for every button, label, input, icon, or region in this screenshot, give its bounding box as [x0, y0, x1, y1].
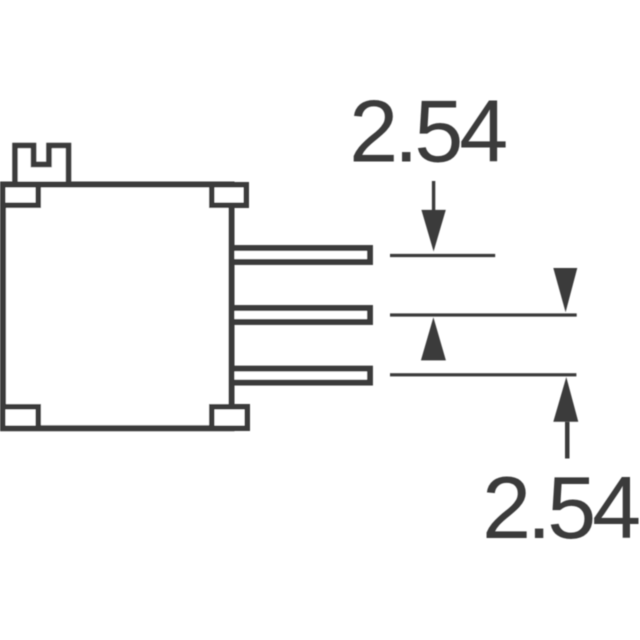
arrow down above pin-2 dimension line (right) [553, 268, 577, 312]
arrow down from top 2.54 label [432, 181, 435, 212]
dimension line pin 3 [390, 373, 576, 376]
arrow up below pin-3 dimension line with stem to bottom 2.54 label [553, 377, 578, 422]
adjustment screw tab with slot (top-left of body) [15, 146, 69, 188]
trimmer body outline [3, 185, 232, 429]
arrow up below pin-2 dimension line [421, 317, 446, 360]
svg-text:2.54: 2.54 [349, 81, 506, 180]
dimension line pin 2 [390, 313, 577, 316]
pin 3 lead (bottom) [232, 369, 371, 383]
mounting foot top-left [3, 185, 39, 206]
mounting foot bottom-left [3, 407, 39, 429]
dimension line pin 1 [390, 254, 495, 257]
pin 1 lead (top) [232, 248, 371, 262]
svg-text:2.54: 2.54 [482, 458, 639, 557]
mounting foot top-right [212, 185, 247, 206]
pin 2 lead (middle) [232, 308, 371, 322]
mounting foot bottom-right [212, 407, 248, 429]
